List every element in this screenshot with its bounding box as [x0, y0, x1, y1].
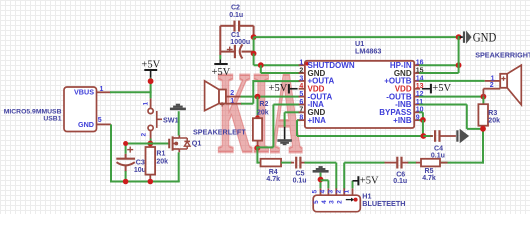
- svg-text:8: 8: [299, 115, 303, 122]
- svg-text:R5: R5: [425, 168, 434, 175]
- svg-text:SPEAKERLEFT: SPEAKERLEFT: [193, 127, 246, 136]
- svg-text:0.1u: 0.1u: [293, 178, 307, 185]
- svg-text:1: 1: [343, 190, 350, 194]
- svg-text:3: 3: [299, 75, 303, 82]
- svg-text:R2: R2: [259, 101, 268, 108]
- svg-text:+5V: +5V: [212, 67, 231, 78]
- svg-text:SPEAKERRIGHT: SPEAKERRIGHT: [475, 50, 530, 59]
- svg-text:4: 4: [299, 83, 303, 90]
- svg-text:USB1: USB1: [43, 115, 61, 122]
- svg-text:+5V: +5V: [360, 176, 379, 187]
- svg-text:20k: 20k: [257, 109, 269, 116]
- svg-text:R1: R1: [156, 150, 165, 157]
- svg-text:C1: C1: [231, 32, 240, 39]
- svg-text:4.7k: 4.7k: [422, 175, 436, 182]
- svg-text:1: 1: [299, 60, 303, 67]
- svg-text:5: 5: [313, 200, 320, 204]
- svg-text:1: 1: [143, 102, 150, 106]
- svg-text:2: 2: [299, 67, 303, 74]
- svg-text:C3: C3: [136, 159, 145, 166]
- svg-text:R4: R4: [269, 169, 278, 176]
- svg-text:3: 3: [327, 190, 334, 194]
- svg-text:5: 5: [98, 117, 102, 124]
- svg-text:20k: 20k: [156, 159, 168, 166]
- svg-text:C4: C4: [434, 145, 443, 152]
- svg-text:7: 7: [299, 107, 303, 114]
- svg-text:+5V: +5V: [432, 83, 451, 94]
- svg-text:1000u: 1000u: [230, 39, 250, 46]
- svg-text:2: 2: [141, 133, 148, 137]
- svg-text:20k: 20k: [488, 117, 500, 124]
- svg-text:2: 2: [337, 200, 344, 204]
- svg-text:3: 3: [329, 200, 336, 204]
- svg-text:C5: C5: [296, 171, 305, 178]
- svg-text:BLUETEETH: BLUETEETH: [362, 199, 405, 208]
- svg-text:Q1: Q1: [192, 139, 202, 148]
- svg-text:GND: GND: [78, 120, 94, 129]
- svg-text:5: 5: [312, 190, 319, 194]
- svg-text:LM4863: LM4863: [355, 46, 381, 55]
- svg-text:4: 4: [320, 190, 327, 194]
- svg-text:4: 4: [321, 200, 328, 204]
- svg-text:+INB: +INB: [393, 116, 412, 125]
- svg-text:+5V: +5V: [141, 59, 160, 70]
- svg-text:SW1: SW1: [163, 116, 179, 125]
- svg-text:6: 6: [299, 99, 303, 106]
- svg-text:2: 2: [490, 82, 494, 89]
- svg-text:4.7k: 4.7k: [266, 176, 280, 183]
- svg-text:10u: 10u: [134, 167, 146, 174]
- svg-text:+5V: +5V: [269, 83, 288, 94]
- svg-text:0.1u: 0.1u: [229, 12, 243, 19]
- svg-text:2: 2: [335, 190, 342, 194]
- svg-text:GND: GND: [473, 30, 497, 45]
- svg-text:C2: C2: [231, 5, 240, 12]
- svg-text:5: 5: [299, 91, 303, 98]
- svg-text:0.1u: 0.1u: [393, 178, 407, 185]
- svg-text:VBUS: VBUS: [74, 88, 94, 97]
- svg-text:+INA: +INA: [308, 116, 327, 125]
- svg-text:R3: R3: [488, 110, 497, 117]
